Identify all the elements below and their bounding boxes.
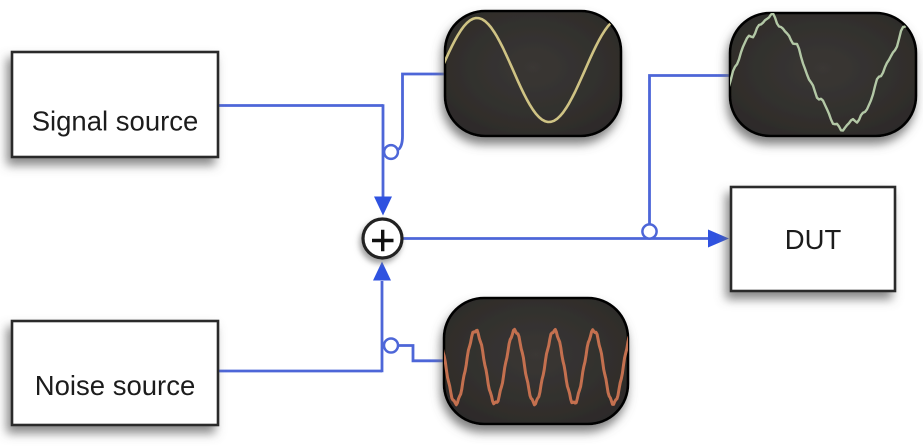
wire vertical down into summing node <box>382 104 385 198</box>
summing junction circle <box>363 219 402 258</box>
block Signal source <box>12 52 218 157</box>
probe circle on signal branch <box>384 145 398 159</box>
svg-text:DUT: DUT <box>785 224 842 255</box>
block Noise source <box>12 321 218 425</box>
wire noise source to junction <box>219 370 382 373</box>
probe circle on output wire <box>642 224 656 238</box>
noisy sine wave in sum scope <box>729 13 917 130</box>
sum scope display <box>730 13 916 136</box>
wire tap from output up to sum scope <box>650 76 732 226</box>
svg-text:Noise source: Noise source <box>35 370 196 401</box>
wire summing node to DUT <box>403 237 709 240</box>
sine wave in signal scope <box>443 18 623 122</box>
arrowhead into summing node top <box>374 197 392 216</box>
arrowhead into summing node bottom <box>373 262 391 281</box>
signal scope display <box>445 11 621 136</box>
wire vertical up into summing node <box>381 281 384 372</box>
wire tap up to signal scope <box>399 74 447 150</box>
noise wave in noise scope <box>442 329 629 404</box>
plus sign in summing junction <box>372 230 394 252</box>
svg-text:Signal source: Signal source <box>32 106 199 137</box>
wire signal source to junction <box>219 104 383 107</box>
noise scope display <box>444 298 628 424</box>
probe circle on noise branch <box>384 339 398 353</box>
block DUT <box>731 187 895 291</box>
wire tap right to noise scope <box>398 346 445 361</box>
arrowhead into DUT <box>708 230 729 248</box>
